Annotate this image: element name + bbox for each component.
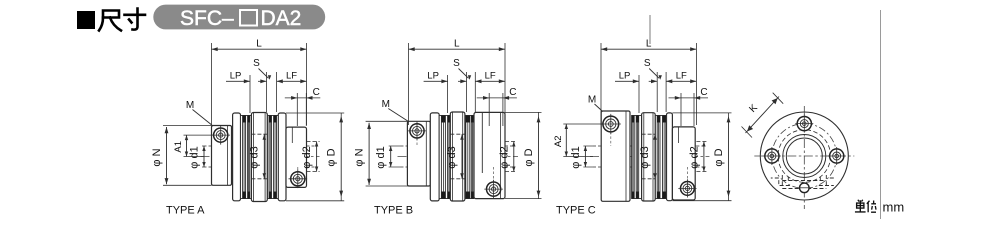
dim phi-D TYPE C bbox=[728, 116, 730, 197]
svg-text:φ d1: φ d1 bbox=[375, 146, 387, 168]
svg-text:DA2: DA2 bbox=[261, 7, 302, 30]
front view bolt circle (dash-dot) bbox=[772, 124, 837, 189]
svg-text:S: S bbox=[453, 58, 460, 69]
svg-text:φ N: φ N bbox=[354, 148, 366, 166]
clamp slit TYPE B bbox=[481, 112, 483, 173]
bolt hole right bbox=[828, 147, 846, 165]
front view clamp screw head (bottom, hidden) bbox=[800, 183, 810, 193]
center spacer TYPE B bbox=[450, 112, 465, 201]
spacer bore d3 hidden lines TYPE A bbox=[251, 133, 267, 135]
dim L TYPE B bbox=[408, 43, 410, 125]
disc flange plate 1 TYPE B bbox=[430, 113, 439, 201]
front view flange outer circle bbox=[760, 112, 848, 200]
spacer bore d3 hidden lines TYPE B bbox=[450, 133, 465, 135]
front view bore circle bbox=[786, 138, 822, 174]
label 单位 mm bbox=[855, 200, 876, 212]
disc flange plate 1 TYPE A bbox=[233, 113, 241, 201]
svg-text:LF: LF bbox=[286, 71, 297, 82]
right hub TYPE C bbox=[672, 127, 695, 200]
left hub TYPE A bbox=[212, 126, 232, 186]
collar step line TYPE B bbox=[500, 113, 502, 198]
disc flange plate 2 TYPE A bbox=[278, 113, 286, 201]
svg-text:φ D: φ D bbox=[713, 148, 725, 166]
spacer bore d3 hidden lines TYPE C bbox=[642, 133, 656, 135]
front view center lines bbox=[754, 155, 854, 157]
clamp screw (left hub) TYPE C bbox=[601, 114, 621, 134]
disc pack right TYPE C bbox=[655, 116, 666, 199]
dim phi-d3 TYPE A bbox=[263, 134, 265, 179]
disc pack left TYPE A bbox=[241, 116, 252, 199]
svg-text:φ d2: φ d2 bbox=[301, 146, 313, 168]
svg-text:TYPE B: TYPE B bbox=[374, 205, 413, 217]
svg-text:LP: LP bbox=[230, 71, 242, 82]
svg-text:φ d3: φ d3 bbox=[639, 146, 651, 168]
clamp screw (right hub) TYPE A bbox=[289, 170, 308, 189]
dim S TYPE A bbox=[266, 72, 268, 112]
header text 尺寸 (drawn strokes) bbox=[99, 9, 145, 31]
svg-text:LP: LP bbox=[427, 71, 439, 82]
centerline TYPE B bbox=[398, 156, 519, 158]
left hub TYPE B bbox=[407, 121, 430, 186]
clamp screw (left hub) TYPE B bbox=[408, 122, 427, 141]
dim phi-d1 TYPE B bbox=[390, 146, 392, 167]
dim A1 TYPE A bbox=[186, 135, 188, 156]
svg-text:SFC–: SFC– bbox=[180, 7, 234, 30]
clamp screw (left hub) TYPE A bbox=[211, 126, 230, 145]
left hub TYPE C bbox=[601, 111, 630, 201]
svg-text:L: L bbox=[646, 39, 652, 50]
dim phi-d1 TYPE A bbox=[203, 146, 205, 167]
bore lines TYPE C bbox=[601, 145, 696, 147]
collar step line TYPE A bbox=[291, 127, 293, 143]
bolt hole top bbox=[795, 115, 813, 133]
svg-text:A2: A2 bbox=[553, 135, 564, 147]
dim C TYPE A bbox=[296, 93, 298, 126]
dim A2 TYPE C bbox=[565, 124, 567, 157]
page edge vertical rule bbox=[880, 10, 882, 219]
dim phi-d3 TYPE B bbox=[461, 134, 463, 179]
front view hidden clamp slot (bottom) bbox=[771, 175, 836, 189]
center spacer TYPE A bbox=[251, 113, 267, 202]
dim LP TYPE A bbox=[226, 80, 250, 82]
svg-text:C: C bbox=[700, 87, 707, 98]
dim LF TYPE B bbox=[475, 80, 505, 82]
disc pack left TYPE B bbox=[439, 116, 450, 199]
disc pack left TYPE C bbox=[632, 116, 642, 199]
svg-text:TYPE C: TYPE C bbox=[556, 205, 596, 217]
svg-text:φ d1: φ d1 bbox=[189, 146, 201, 168]
svg-text:LP: LP bbox=[619, 71, 631, 82]
dim phi-d3 TYPE C bbox=[654, 134, 656, 179]
dim LF TYPE C bbox=[666, 80, 696, 82]
right hub TYPE A bbox=[286, 127, 307, 187]
right hub TYPE B bbox=[474, 112, 505, 198]
dim S TYPE C bbox=[656, 72, 658, 112]
center spacer TYPE C bbox=[642, 113, 656, 201]
svg-text:φ d3: φ d3 bbox=[248, 146, 260, 168]
disc pack right TYPE B bbox=[465, 116, 474, 199]
dim C TYPE C bbox=[680, 93, 682, 126]
header pill SFC-(box)DA2 bbox=[153, 5, 325, 30]
dim phi-D TYPE B bbox=[538, 116, 540, 197]
centerline TYPE C bbox=[590, 156, 709, 158]
svg-text:φ d1: φ d1 bbox=[570, 146, 582, 168]
centerline TYPE A bbox=[201, 156, 320, 158]
dim L TYPE C bbox=[600, 43, 602, 125]
dim phi-d2 TYPE A bbox=[316, 142, 318, 172]
svg-text:φ N: φ N bbox=[151, 148, 163, 166]
dim phi-N TYPE A bbox=[166, 127, 168, 184]
svg-text:A1: A1 bbox=[173, 141, 184, 153]
svg-text:φ d2: φ d2 bbox=[688, 146, 700, 168]
header black square bullet bbox=[77, 11, 95, 29]
bolt hole left bbox=[763, 147, 781, 165]
svg-text:L: L bbox=[454, 39, 460, 50]
dim phi-d2 TYPE B bbox=[513, 142, 515, 172]
disc pack right TYPE A bbox=[267, 116, 278, 199]
svg-text:C: C bbox=[313, 87, 320, 98]
svg-text:mm: mm bbox=[883, 200, 905, 215]
svg-text:LF: LF bbox=[676, 71, 687, 82]
bore lines TYPE A bbox=[212, 145, 307, 147]
svg-text:LF: LF bbox=[485, 71, 496, 82]
svg-text:TYPE A: TYPE A bbox=[166, 205, 205, 217]
bore lines TYPE B bbox=[409, 145, 506, 147]
clamp screw (right hub) TYPE B bbox=[484, 180, 503, 199]
dim phi-N TYPE B bbox=[368, 123, 370, 185]
svg-text:φ D: φ D bbox=[523, 148, 535, 166]
dim LP TYPE C bbox=[615, 80, 639, 82]
dim LP TYPE B bbox=[424, 80, 448, 82]
dim S TYPE B bbox=[466, 72, 468, 112]
front view hub boss circle bbox=[783, 135, 826, 178]
page crease mark above TYPE C bbox=[649, 15, 651, 44]
dim L TYPE A bbox=[211, 43, 213, 125]
dim phi-d1 TYPE C bbox=[584, 146, 586, 167]
svg-text:φ D: φ D bbox=[326, 148, 338, 166]
svg-text:φ d2: φ d2 bbox=[498, 146, 510, 168]
disc flange plate 1 TYPE C bbox=[667, 113, 673, 201]
svg-text:φ d3: φ d3 bbox=[446, 146, 458, 168]
svg-text:L: L bbox=[256, 39, 262, 50]
collar step line TYPE C bbox=[678, 127, 680, 143]
clamp screw (right hub) TYPE C bbox=[678, 179, 696, 197]
dim C TYPE B bbox=[488, 93, 490, 126]
dim phi-d2 TYPE C bbox=[703, 142, 705, 172]
front view hidden circle d3 bbox=[778, 130, 831, 183]
svg-text:S: S bbox=[253, 58, 260, 69]
dim phi-D TYPE A bbox=[340, 116, 342, 197]
dim LF TYPE A bbox=[277, 80, 307, 82]
svg-text:S: S bbox=[644, 58, 651, 69]
svg-text:C: C bbox=[509, 87, 516, 98]
dim K (diagonal) bbox=[742, 93, 784, 138]
